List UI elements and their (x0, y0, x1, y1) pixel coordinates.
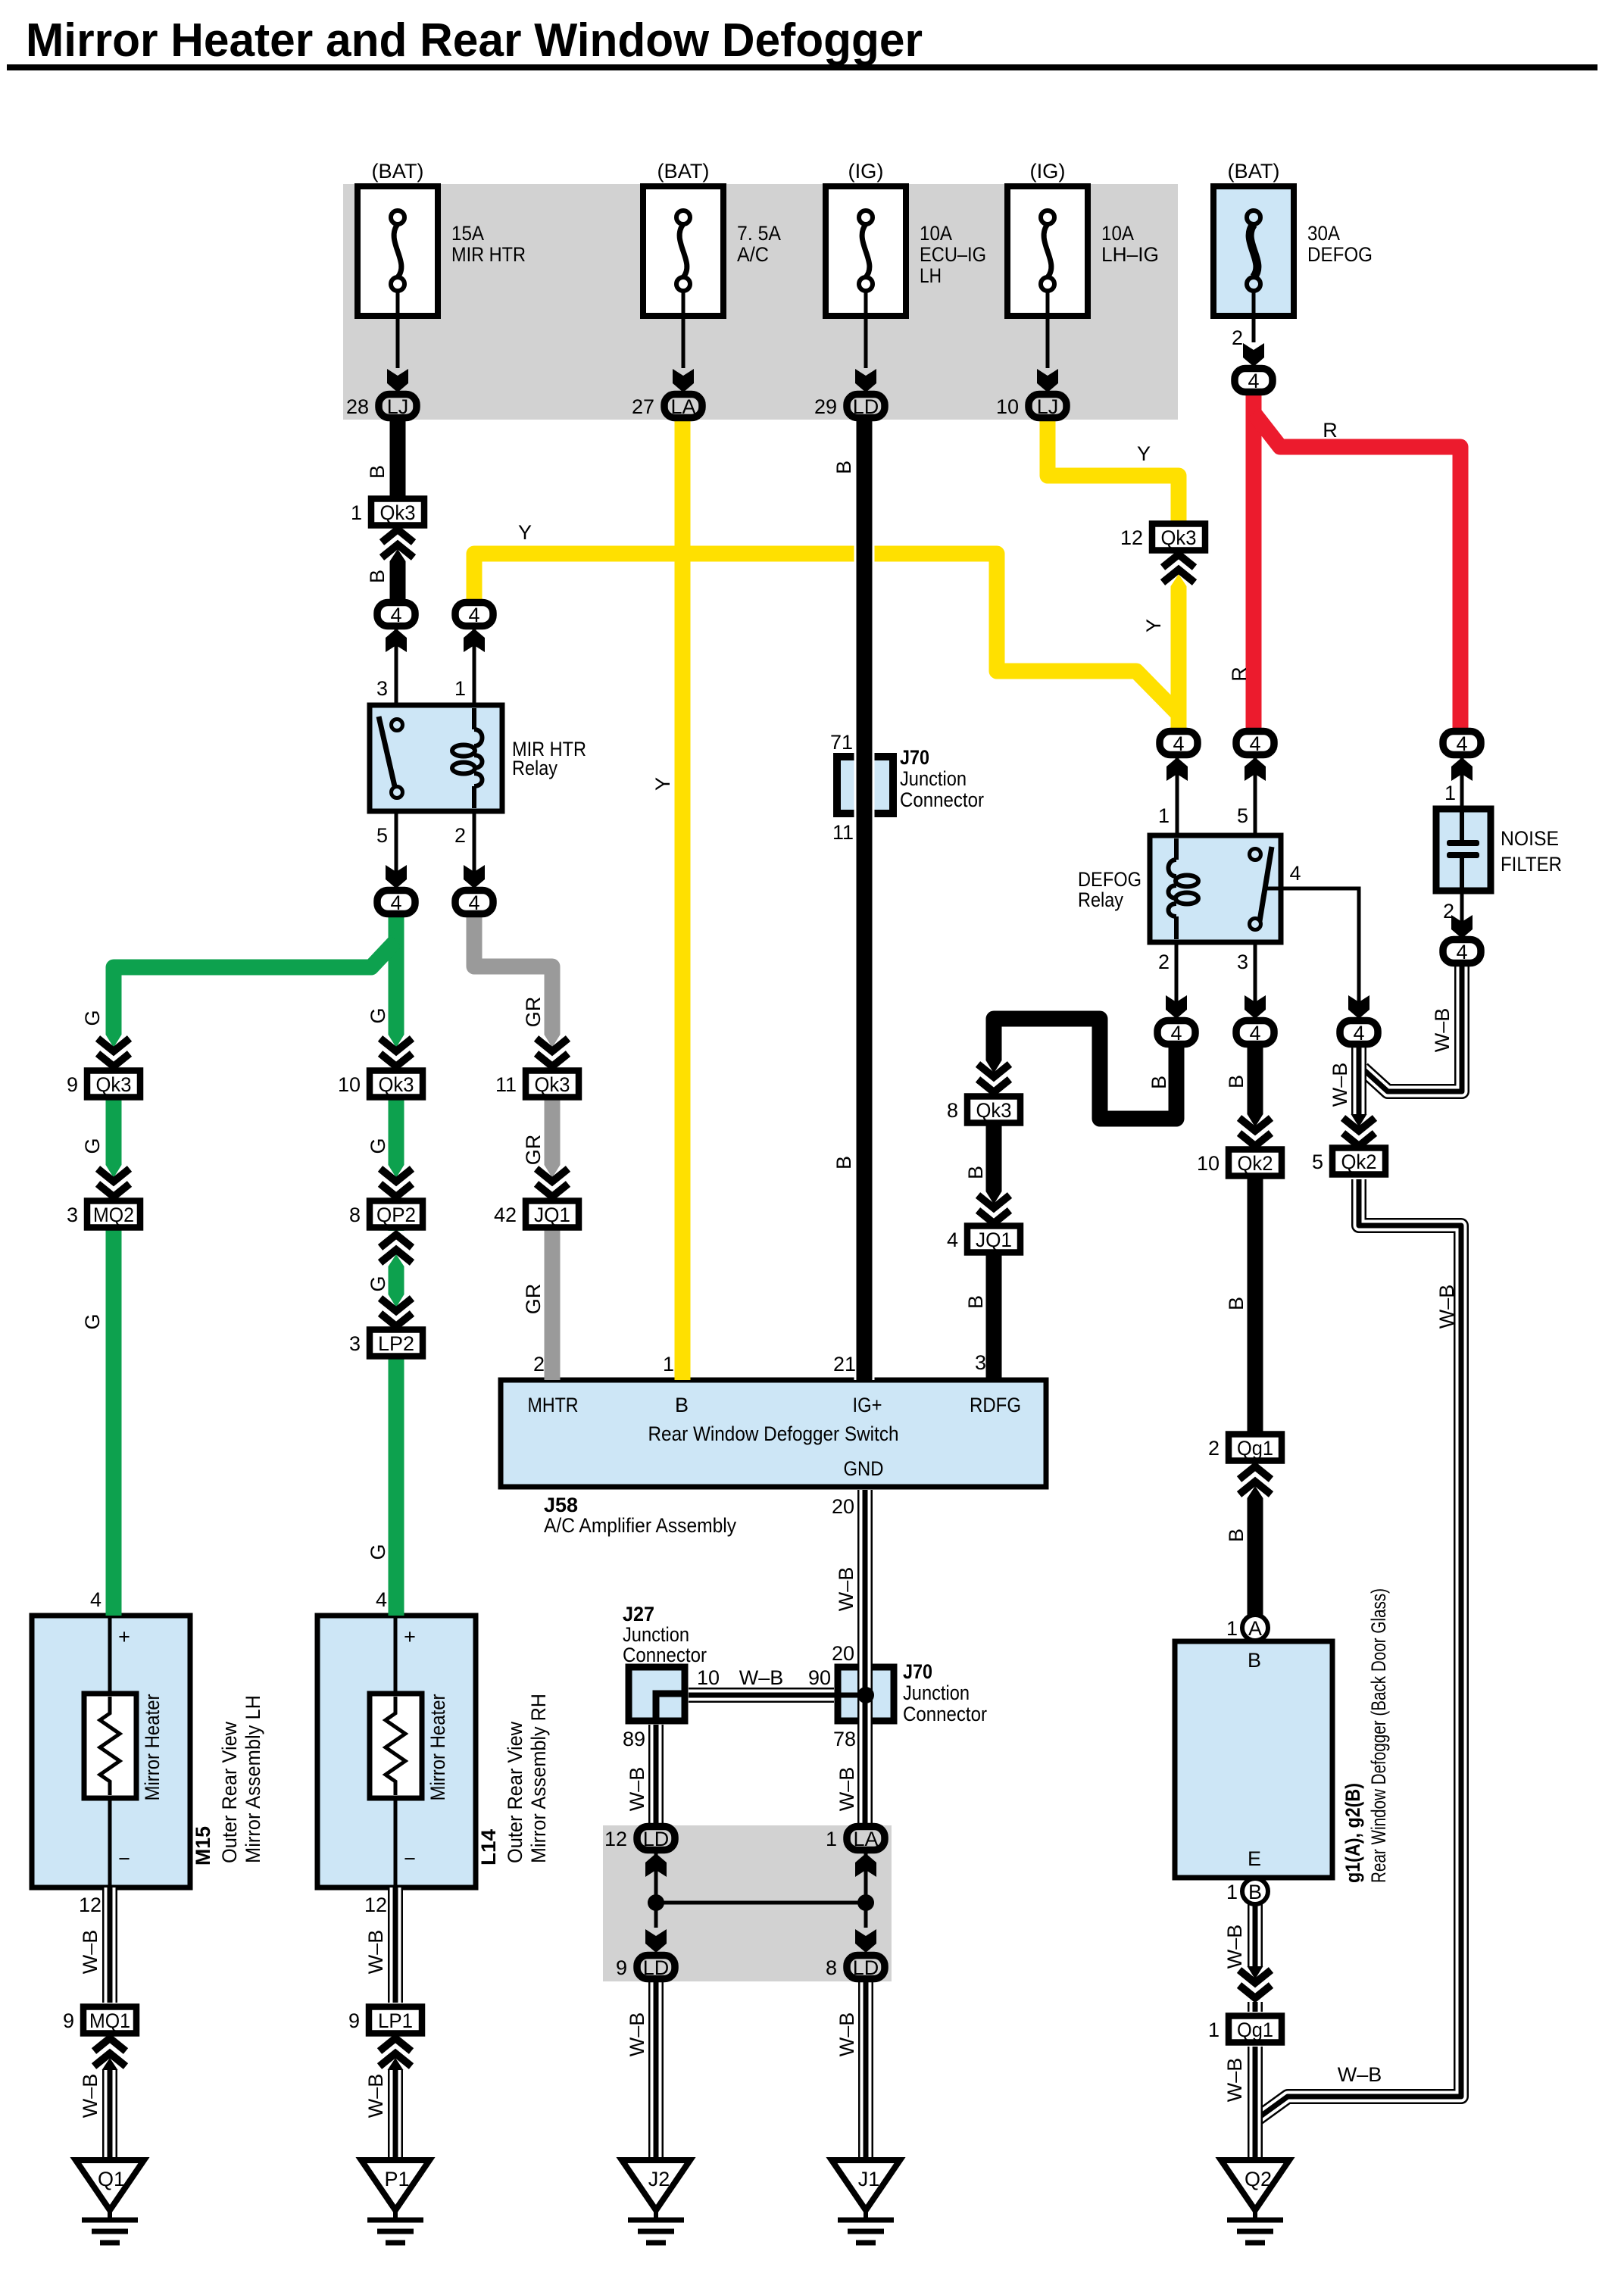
svg-text:Junction: Junction (900, 767, 967, 790)
wire black B from 4 JQ1 to switch RDFG pin (986, 1251, 1002, 1380)
svg-text:2: 2 (1158, 951, 1170, 973)
capacitor leads (1460, 812, 1464, 840)
svg-text:Qk3: Qk3 (96, 1073, 132, 1096)
wire black B from 10 Qk2 to 2 Qg1 (1248, 1174, 1263, 1435)
svg-text:B: B (366, 465, 389, 479)
wire yellow Y from LJ(10) fuse to 12 Qk3 (1048, 419, 1179, 522)
svg-text:W–B: W–B (835, 2012, 858, 2057)
connector 9 LP1 (348, 2007, 422, 2034)
node 4 above relay pin 1 (455, 603, 493, 627)
svg-text:4: 4 (390, 891, 401, 914)
node 9 LD (616, 1956, 675, 1980)
wire fuse2 to connector LA (682, 291, 686, 368)
svg-text:71: 71 (830, 731, 853, 754)
svg-text:W–B: W–B (626, 1767, 648, 1812)
wire black B from DEFOG relay pin2 oval to 8 Qk3 (zigzag) (994, 1019, 1176, 1119)
svg-text:(BAT): (BAT) (1228, 160, 1280, 183)
connector 2 Qg1 (1208, 1435, 1282, 1461)
svg-text:Qk3: Qk3 (1161, 526, 1197, 549)
svg-text:Connector: Connector (900, 788, 984, 811)
svg-text:GR: GR (522, 1135, 545, 1166)
fuse 10A LH-IG (1007, 160, 1159, 316)
svg-text:7. 5A: 7. 5A (737, 222, 781, 245)
svg-text:1: 1 (1444, 782, 1456, 804)
svg-text:M15: M15 (192, 1826, 214, 1866)
wire fuse3 to connector LD (864, 291, 868, 368)
svg-text:LJ: LJ (1037, 395, 1059, 418)
svg-text:4: 4 (1248, 370, 1259, 392)
wire red R from DEFOG fuse oval down to DEFOG relay pin 5 oval (1246, 392, 1262, 731)
junction connector J70 (upper) (837, 757, 893, 813)
svg-text:B: B (1225, 1297, 1248, 1310)
node 27 LA (632, 395, 702, 419)
svg-text:JQ1: JQ1 (534, 1204, 570, 1226)
splice chevron down above 10 Qk3 (379, 1035, 414, 1070)
svg-text:4: 4 (1173, 732, 1184, 755)
wire W-B long run from 5 Qk2 to ground Q2 area (1257, 1179, 1461, 2119)
svg-text:Rear Window Defogger (Back Doo: Rear Window Defogger (Back Door Glass) (1367, 1588, 1390, 1883)
svg-text:Y: Y (1137, 442, 1151, 465)
svg-text:1: 1 (1158, 804, 1170, 827)
node 4 below relay pin 5 (377, 891, 415, 915)
svg-text:W–B: W–B (1338, 2063, 1382, 2086)
svg-text:12: 12 (1120, 526, 1143, 549)
svg-text:W–B: W–B (626, 2012, 648, 2057)
splice chevron up below 1 Qk3 (380, 526, 415, 561)
gray band (fuse block) (343, 184, 1178, 420)
connector 3 MQ2 (67, 1201, 140, 1228)
svg-text:4: 4 (468, 891, 479, 914)
wire yellow Y from LA fuse to switch B pin (675, 419, 691, 1380)
svg-text:W–B: W–B (835, 1567, 857, 1612)
svg-text:Outer Rear View: Outer Rear View (218, 1722, 241, 1863)
svg-text:4: 4 (1353, 1022, 1364, 1044)
connector 3 LP2 (349, 1330, 423, 1357)
svg-text:Y: Y (518, 521, 532, 544)
svg-text:R: R (1323, 419, 1338, 442)
svg-text:MQ1: MQ1 (89, 2009, 130, 2032)
wire fuse5 to oval 4 (1252, 291, 1256, 342)
svg-text:B: B (675, 1394, 689, 1416)
svg-text:Outer Rear View: Outer Rear View (504, 1722, 526, 1863)
svg-text:A/C: A/C (737, 243, 769, 266)
wire black B from DEFOG relay pin3 oval to 10 Qk2 (1248, 1045, 1263, 1151)
svg-text:2: 2 (1232, 326, 1243, 349)
svg-text:MQ2: MQ2 (93, 1204, 134, 1226)
node 28 LJ (346, 395, 417, 419)
svg-text:W–B: W–B (739, 1666, 784, 1689)
svg-text:B: B (1225, 1528, 1248, 1542)
svg-text:B: B (366, 570, 389, 583)
svg-text:4: 4 (1289, 862, 1301, 885)
svg-text:B: B (1248, 1881, 1262, 1903)
splice chevron down above 4 JQ1 (976, 1191, 1011, 1227)
svg-text:LD: LD (853, 1956, 879, 1979)
svg-text:B: B (1225, 1075, 1248, 1088)
svg-text:LP2: LP2 (378, 1332, 414, 1355)
MIR HTR relay switch contact (379, 717, 403, 798)
svg-text:LH–IG: LH–IG (1101, 243, 1159, 266)
splice chevron up below 2 Qg1 (1238, 1463, 1273, 1498)
svg-text:RDFG: RDFG (970, 1394, 1021, 1416)
M15 Outer Rear View Mirror Assembly LH box (32, 1616, 190, 1888)
svg-text:4: 4 (1170, 1022, 1182, 1044)
svg-text:B: B (1148, 1076, 1170, 1089)
svg-text:G: G (81, 1138, 104, 1154)
wire W-B from switch GND pin 20 through J70 to 1 LA oval (857, 1490, 873, 1827)
svg-text:J2: J2 (648, 2168, 670, 2190)
svg-text:JQ1: JQ1 (976, 1229, 1012, 1251)
svg-text:4: 4 (376, 1588, 387, 1611)
svg-text:10A: 10A (1101, 222, 1134, 245)
svg-text:Qk3: Qk3 (380, 501, 416, 524)
svg-text:9: 9 (348, 2009, 360, 2032)
junction connector J70 (lower) (838, 1667, 894, 1721)
svg-text:9: 9 (616, 1956, 627, 1979)
svg-text:Mirror Heater and Rear Window: Mirror Heater and Rear Window Defogger (26, 14, 923, 67)
svg-text:LA: LA (853, 1828, 878, 1850)
svg-text:B: B (964, 1166, 987, 1179)
svg-text:5: 5 (1237, 804, 1248, 827)
svg-text:30A: 30A (1307, 222, 1340, 245)
wire thin: DEFOG relay pin 4 to oval4 (1265, 888, 1359, 1017)
svg-text:DEFOG: DEFOG (1078, 868, 1141, 891)
DEFOG relay switch contact (1250, 847, 1273, 930)
connector 42 JQ1 (494, 1201, 579, 1228)
wire W-B from DEFOG relay pin4 oval to 5 Qk2 (1351, 1045, 1366, 1144)
svg-text:−: − (404, 1847, 416, 1870)
node 12 LD (604, 1827, 675, 1851)
svg-text:27: 27 (632, 395, 654, 418)
title underline (7, 64, 1597, 70)
wire W-B from L14 pin 12 to 9 LP1 and ground P1 (388, 1888, 403, 2160)
wire fuse4 to connector LJ (1046, 291, 1050, 368)
svg-text:W–B: W–B (835, 1767, 858, 1812)
svg-text:L14: L14 (477, 1829, 500, 1866)
M15 mirror heater resistor (84, 1694, 136, 1798)
splice chevron down above 8 QP2 (379, 1165, 414, 1201)
wire W-B from 8 LD oval to ground J1 (858, 1980, 873, 2160)
node 4 below DEFOG relay pin 4 (1340, 1021, 1378, 1045)
wire thin: 12 LD oval to junction dot (654, 1853, 658, 1903)
L14 mirror heater resistor (370, 1694, 422, 1798)
connector 8 QP2 (349, 1201, 423, 1228)
svg-text:Qk3: Qk3 (379, 1073, 414, 1096)
svg-text:Mirror Assembly RH: Mirror Assembly RH (527, 1694, 550, 1863)
node 4 above noise filter (1443, 732, 1481, 756)
svg-text:Q2: Q2 (1245, 2168, 1272, 2190)
L14 Outer Rear View Mirror Assembly RH box (317, 1616, 476, 1888)
svg-text:(IG): (IG) (1030, 160, 1066, 183)
wire red R branch to noise filter oval (1254, 413, 1460, 731)
svg-text:21: 21 (833, 1353, 856, 1375)
svg-text:GR: GR (522, 1284, 545, 1315)
node 4 below DEFOG relay pin 3 (1236, 1021, 1274, 1045)
svg-text:1: 1 (826, 1828, 837, 1850)
svg-text:Rear Window Defogger Switch: Rear Window Defogger Switch (648, 1422, 899, 1445)
svg-text:Junction: Junction (903, 1681, 970, 1704)
DEFOG relay coil (1169, 838, 1199, 939)
svg-text:A: A (1248, 1617, 1262, 1640)
svg-text:20: 20 (832, 1495, 854, 1518)
wire W-B from J27 pin 89 down to 12 LD oval (648, 1725, 664, 1827)
svg-text:FILTER: FILTER (1501, 853, 1562, 876)
svg-text:4: 4 (947, 1229, 958, 1251)
svg-text:+: + (404, 1625, 416, 1648)
svg-text:29: 29 (814, 395, 837, 418)
svg-text:28: 28 (346, 395, 369, 418)
splice chevron down above 3 MQ2 (96, 1165, 131, 1201)
splice chevron up below 9 MQ1 (92, 2034, 127, 2070)
svg-text:5: 5 (376, 824, 388, 847)
svg-text:W–B: W–B (79, 2074, 101, 2119)
svg-text:+: + (118, 1625, 130, 1648)
wire yellow Y horizontal: MIR HTR relay coil node to DEFOG relay node (474, 554, 1179, 714)
node 4 above DEFOG relay pin 5 (1236, 732, 1274, 756)
svg-text:Qk2: Qk2 (1238, 1152, 1273, 1175)
svg-text:10A: 10A (920, 222, 952, 245)
svg-text:Relay: Relay (1078, 888, 1123, 911)
svg-text:GND: GND (844, 1457, 884, 1480)
svg-text:8: 8 (947, 1099, 958, 1122)
svg-text:MIR HTR: MIR HTR (451, 243, 526, 266)
ground J2 (622, 2160, 690, 2243)
wire thin: 1 LA oval to junction dot (864, 1853, 868, 1903)
svg-text:LA: LA (670, 395, 695, 418)
svg-text:Mirror Assembly LH: Mirror Assembly LH (242, 1695, 264, 1863)
junction dot inside J70 (857, 1687, 874, 1703)
svg-text:DEFOG: DEFOG (1307, 243, 1373, 266)
splice chevron down above 8 Qk3 (976, 1060, 1011, 1096)
wire thin: oval4 to noise filter pin 1 (1460, 757, 1464, 809)
splice chevron down above 3 LP2 (379, 1294, 414, 1330)
wire thin: noise filter pin 2 to oval4 (1460, 891, 1464, 937)
svg-text:12: 12 (79, 1894, 101, 1916)
svg-text:4: 4 (1249, 1022, 1260, 1044)
node 29 LD (814, 395, 885, 419)
wire W-B from defogger circle B to 1 Qg1 and ground Q2 (1248, 1904, 1263, 2160)
junction dot left (648, 1894, 664, 1911)
wire W-B from 9 LD oval to ground J2 (648, 1980, 664, 2160)
svg-text:Junction: Junction (623, 1623, 689, 1646)
svg-text:NOISE: NOISE (1501, 827, 1559, 850)
node 4 below noise filter (1443, 940, 1481, 964)
ground J1 (832, 2160, 900, 2243)
svg-text:W–B: W–B (1329, 1063, 1351, 1107)
svg-text:B: B (832, 1156, 855, 1169)
svg-text:78: 78 (833, 1728, 856, 1750)
wire thin: DEFOG relay pin 2 to oval4 (1175, 942, 1179, 1017)
svg-text:LD: LD (643, 1956, 670, 1979)
node 4 above DEFOG relay pin 1 (1160, 732, 1198, 756)
svg-text:A/C Amplifier Assembly: A/C Amplifier Assembly (544, 1514, 736, 1537)
node 10 LJ (996, 395, 1067, 419)
svg-text:9: 9 (63, 2009, 74, 2032)
svg-text:10: 10 (1197, 1152, 1220, 1175)
splice chevron down above 42 JQ1 (535, 1165, 570, 1201)
splice chevron down above 10 Qk2 (1238, 1114, 1273, 1150)
svg-text:B: B (964, 1295, 987, 1309)
svg-text:G: G (367, 1138, 389, 1154)
svg-text:J70: J70 (900, 746, 929, 769)
svg-text:E: E (1248, 1847, 1261, 1870)
connector 4 JQ1 (black run) (947, 1226, 1020, 1253)
ground P1 (361, 2160, 429, 2243)
svg-text:W–B: W–B (79, 1930, 101, 1975)
relay U1 MIR HTR Relay box (370, 705, 502, 811)
node A defogger circle (1226, 1615, 1268, 1641)
node 1 LA (826, 1827, 885, 1851)
wire thin: oval4 to MIR HTR relay pin 1 (473, 628, 476, 705)
svg-text:10: 10 (338, 1073, 361, 1096)
svg-text:2: 2 (454, 824, 466, 847)
svg-text:Mirror Heater: Mirror Heater (426, 1694, 449, 1801)
svg-text:9: 9 (67, 1073, 78, 1096)
junction connector J27 (629, 1667, 685, 1721)
fuse 10A ECU-IG LH (826, 160, 986, 316)
svg-text:QP2: QP2 (376, 1204, 416, 1226)
svg-text:10: 10 (996, 395, 1019, 418)
svg-text:Qk3: Qk3 (535, 1073, 570, 1096)
wire thin: MIR HTR relay pin 2 to oval4 (473, 811, 476, 887)
svg-text:LH: LH (920, 264, 942, 287)
svg-text:4: 4 (390, 604, 401, 626)
svg-text:Y: Y (651, 777, 674, 791)
svg-text:IG+: IG+ (853, 1394, 882, 1416)
svg-text:G: G (367, 1007, 389, 1023)
svg-text:(IG): (IG) (848, 160, 884, 183)
connector 10 Qk2 (1197, 1150, 1282, 1176)
svg-text:4: 4 (1456, 941, 1467, 963)
svg-text:3: 3 (376, 677, 388, 700)
svg-text:GR: GR (522, 997, 545, 1028)
wire green G branch to M15 (114, 941, 396, 1616)
svg-text:3: 3 (975, 1351, 986, 1374)
svg-text:J1: J1 (858, 2168, 880, 2190)
svg-text:J70: J70 (903, 1660, 932, 1683)
splice chevron down above 11 Qk3 (535, 1035, 570, 1070)
svg-text:Connector: Connector (903, 1703, 987, 1725)
svg-text:MHTR: MHTR (528, 1394, 579, 1416)
splice chevron up below 12 Qk3 (1161, 551, 1196, 586)
svg-text:LD: LD (643, 1828, 670, 1850)
splice chevron up below 8 QP2 (379, 1231, 414, 1266)
node 4 below relay pin 2 (455, 891, 493, 915)
splice chevron up below 9 LP1 (378, 2034, 413, 2070)
svg-text:Qg1: Qg1 (1237, 2019, 1273, 2041)
connector 1 Qg1 (1208, 2016, 1282, 2043)
connector 11 Qk3 (495, 1071, 579, 1098)
svg-text:J58: J58 (544, 1494, 578, 1516)
svg-text:P1: P1 (384, 2168, 409, 2190)
svg-text:3: 3 (67, 1204, 78, 1226)
svg-text:90: 90 (808, 1666, 831, 1689)
node 4 below DEFOG relay pin 2 (1157, 1021, 1195, 1045)
svg-text:Relay: Relay (512, 757, 557, 779)
svg-text:G: G (81, 1313, 104, 1329)
connector 10 Qk3 (338, 1071, 423, 1098)
wire thin: dot to 8 LD oval (864, 1903, 868, 1928)
connector 9 MQ1 (63, 2007, 136, 2034)
MIR HTR relay coil (452, 708, 483, 808)
svg-text:Qk2: Qk2 (1341, 1151, 1377, 1173)
fuse 7.5A A/C (643, 160, 781, 316)
svg-text:8: 8 (349, 1204, 361, 1226)
svg-text:B: B (832, 461, 855, 474)
svg-text:1: 1 (1208, 2019, 1220, 2041)
fuse 30A DEFOG (1213, 160, 1373, 316)
svg-text:4: 4 (468, 604, 479, 626)
svg-text:12: 12 (604, 1828, 627, 1850)
wire yellow Y from 12 Qk3 to oval 4 (DEFOG relay pin 1) (1171, 550, 1187, 731)
gray band (lower connector block) (603, 1825, 892, 1981)
wire W-B noise filter oval to 5 Qk2 line (merge) (1363, 964, 1462, 1091)
svg-text:Qg1: Qg1 (1237, 1437, 1273, 1460)
svg-text:−: − (118, 1847, 130, 1870)
node 8 LD (826, 1956, 885, 1980)
svg-text:g1(A), g2(B): g1(A), g2(B) (1341, 1783, 1364, 1883)
svg-text:1: 1 (663, 1353, 674, 1375)
svg-text:Q1: Q1 (98, 2168, 125, 2190)
svg-text:1: 1 (454, 677, 466, 700)
wire black B from LJ(28) oval to 1 Qk3 (390, 419, 406, 501)
svg-text:11: 11 (495, 1073, 517, 1096)
splice chevron down above 5 Qk2 (1341, 1114, 1376, 1150)
wire thin: DEFOG relay pin 3 to oval4 (1254, 942, 1257, 1017)
svg-text:2: 2 (1208, 1437, 1220, 1460)
wire W-B from M15 pin 12 to 9 MQ1 and ground Q1 (102, 1888, 117, 2160)
svg-text:1: 1 (1226, 1617, 1238, 1640)
svg-text:ECU–IG: ECU–IG (920, 243, 986, 266)
g1/g2 Rear Window Defogger box (1175, 1641, 1332, 1878)
svg-text:G: G (367, 1276, 389, 1291)
svg-text:J27: J27 (623, 1603, 654, 1625)
ground Q2 (1221, 2160, 1289, 2243)
svg-text:4: 4 (1456, 732, 1467, 755)
wire thin: oval4 to MIR HTR relay pin 3 (395, 628, 398, 705)
svg-text:(BAT): (BAT) (657, 160, 710, 183)
svg-text:Mirror Heater: Mirror Heater (141, 1694, 164, 1801)
node 4 below DEFOG fuse (1235, 369, 1273, 393)
svg-text:1: 1 (351, 501, 362, 524)
svg-text:R: R (1228, 667, 1251, 682)
svg-text:G: G (81, 1010, 104, 1026)
junction dot right (857, 1894, 874, 1911)
wire thin: junction dots horizontal link (656, 1901, 866, 1905)
node 4 above relay pin 3 (377, 603, 415, 627)
splice chevron down above 9 Qk3 (96, 1035, 131, 1070)
svg-text:15A: 15A (451, 222, 484, 245)
wire black B from 1 Qk3 to oval 4 (390, 523, 406, 602)
svg-text:89: 89 (623, 1728, 645, 1750)
svg-text:2: 2 (1443, 900, 1454, 923)
svg-text:W–B: W–B (1223, 2058, 1246, 2103)
connector 9 Qk3 (67, 1071, 140, 1098)
svg-text:LP1: LP1 (378, 2009, 413, 2032)
svg-text:4: 4 (90, 1588, 101, 1611)
ground Q1 (76, 2160, 144, 2243)
svg-text:3: 3 (1237, 951, 1248, 973)
svg-text:42: 42 (494, 1204, 517, 1226)
svg-text:B: B (1248, 1649, 1261, 1672)
wire black B from 8 Qk3 to 4 JQ1 (986, 1122, 1002, 1227)
svg-text:4: 4 (1249, 732, 1260, 755)
svg-text:W–B: W–B (1223, 1925, 1246, 1969)
wire W-B from J27 to J70 horizontal (689, 1688, 866, 1703)
svg-text:12: 12 (364, 1894, 387, 1916)
J58 Rear Window Defogger Switch box (501, 1380, 1046, 1487)
svg-text:LJ: LJ (387, 395, 409, 418)
